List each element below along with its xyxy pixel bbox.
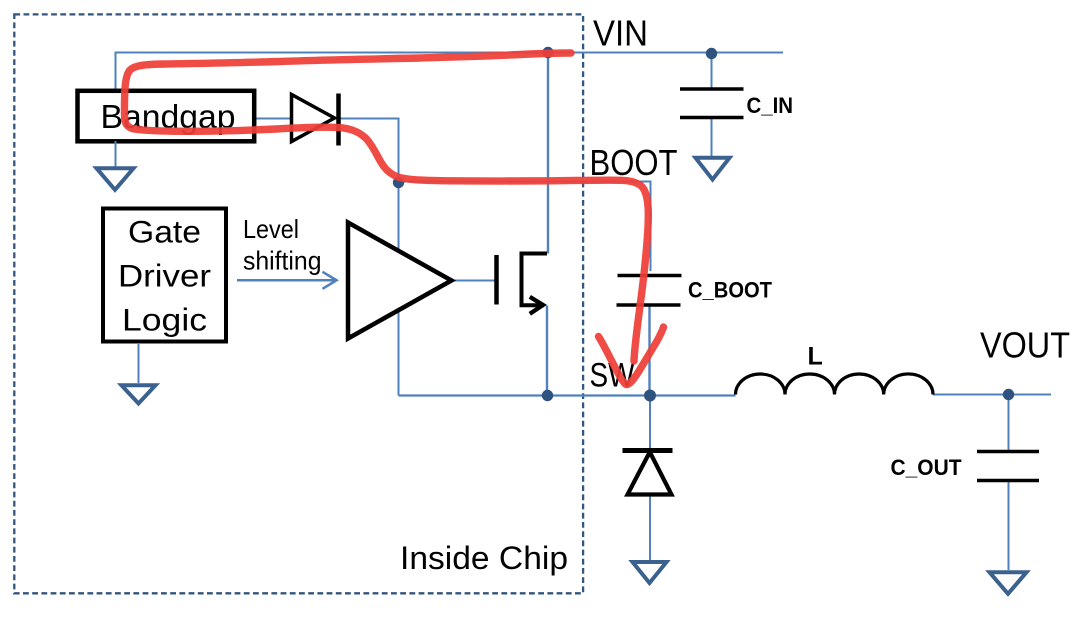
wire: SW node down to diode D2: [649, 396, 651, 449]
svg-text:Level: Level: [243, 214, 299, 244]
wire: C_OUT to ground: [1008, 481, 1010, 570]
svg-text:L: L: [808, 343, 823, 371]
annotation: red bootstrap charge path: [124, 53, 648, 361]
ground symbol under Bandgap: [97, 141, 134, 190]
node: BOOT junction: [393, 177, 404, 188]
capacitor C_BOOT: [617, 276, 682, 306]
inductor L: [736, 374, 934, 395]
svg-text:VIN: VIN: [593, 13, 648, 54]
wire: VIN rail to NMOS drain: [547, 53, 549, 254]
wire: VOUT node to C_OUT: [1008, 395, 1010, 451]
svg-text:VOUT: VOUT: [980, 325, 1070, 366]
node: VIN junction to drain: [542, 47, 553, 58]
transistor Q1 NMOS gate bar: [494, 255, 499, 305]
wire: C_IN bottom to ground: [711, 118, 713, 156]
arrow: level shifting signal into driver: [237, 272, 337, 289]
wire: BOOT node down to driver positive supply: [398, 182, 400, 252]
wire: C_BOOT bottom to SW node: [648, 305, 650, 396]
ground symbol under C_IN: [696, 158, 730, 180]
svg-text:shifting: shifting: [243, 246, 322, 276]
transistor Q1 NMOS channel: [522, 254, 548, 306]
wire: Bandgap riser + VIN rail: [116, 53, 784, 91]
box: Bandgap: [78, 91, 255, 142]
svg-text:C_BOOT: C_BOOT: [688, 278, 773, 303]
wire: driver output to NMOS gate: [452, 280, 495, 282]
svg-text:C_IN: C_IN: [747, 93, 794, 118]
node: SW rail junction at NMOS source: [542, 390, 553, 401]
ground symbol under Gate Driver Logic: [122, 343, 156, 404]
ground symbol under diode D2: [633, 562, 667, 583]
diode D1 bootstrap diode: [292, 94, 339, 146]
diode D2 freewheeling diode: [623, 451, 673, 495]
wire: inductor to VOUT rail: [933, 394, 1051, 396]
wire: SW rail: [399, 394, 736, 396]
node: SW junction at C_BOOT and D2: [644, 390, 656, 402]
node: VOUT junction: [1003, 389, 1014, 400]
node: VIN junction to C_IN: [706, 48, 717, 59]
chip boundary dashed box: [14, 14, 583, 593]
wire: Bandgap through diode D1 down to BOOT node: [255, 119, 399, 253]
capacitor C_IN: [680, 89, 744, 118]
label: Level shifting: [243, 214, 322, 276]
wire: NMOS source down to SW rail: [546, 306, 548, 396]
box: Gate Driver Logic: [103, 209, 226, 342]
annotation: red arrowhead V at SW: [599, 327, 664, 385]
svg-text:Gate: Gate: [128, 214, 201, 250]
wire: VIN rail to C_IN: [711, 53, 713, 89]
transistor Q1 NMOS source arrow: [530, 297, 543, 314]
capacitor C_OUT: [977, 452, 1039, 481]
svg-text:Driver: Driver: [118, 258, 211, 294]
svg-text:Inside Chip: Inside Chip: [400, 540, 568, 576]
wire: driver negative supply down to SW rail: [398, 309, 400, 396]
op-amp U1 gate driver buffer triangle: [348, 223, 452, 339]
wire: diode D2 anode to ground: [649, 494, 651, 561]
wire: BOOT rail to C_BOOT: [399, 182, 651, 272]
svg-text:C_OUT: C_OUT: [891, 455, 963, 480]
ground symbol under C_OUT: [990, 572, 1027, 594]
svg-text:Logic: Logic: [122, 302, 207, 338]
